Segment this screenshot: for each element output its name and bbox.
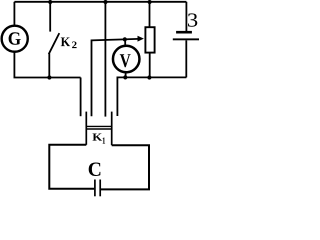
capacitor C left plate	[94, 180, 96, 197]
wire: G upper lead	[13, 2, 15, 26]
wire: rheostat lower lead	[149, 53, 151, 78]
wire: stub 4 outer-right contact from V bottom	[117, 77, 125, 116]
wire: V upper stub	[124, 39, 126, 46]
wire: battery lower lead	[185, 40, 187, 77]
label K1 subscript 1	[103, 138, 106, 144]
galvanometer G body	[2, 26, 28, 52]
wire: top-right corner to battery	[185, 2, 187, 32]
battery short thick plate (negative)	[176, 31, 192, 34]
wire: rheostat upper lead	[149, 2, 151, 27]
junction dot: top bus / K2	[48, 0, 52, 4]
wire: stub 1 outer-left contact	[80, 78, 82, 117]
label K2 subscript 2	[72, 42, 77, 49]
key K1 right post	[111, 112, 113, 146]
label K2 letter K	[61, 38, 70, 47]
wire: top bus	[14, 1, 186, 3]
rheostat R body	[145, 27, 154, 52]
key K1 bridge bar lower	[86, 128, 111, 130]
wire: bottom loop right to capacitor	[101, 145, 149, 189]
wiper arrowhead into rheostat	[138, 36, 144, 42]
switch K2 blade (open)	[49, 33, 60, 54]
wire: bottom loop left to capacitor	[49, 145, 94, 189]
battery long thin plate (positive)	[173, 38, 199, 40]
wire: G lower lead and left bottom wire	[14, 52, 80, 77]
junction dot: wiper line / voltmeter top	[123, 37, 127, 41]
galvanometer G letter	[9, 32, 21, 45]
wire: K2 lower lead	[48, 54, 50, 78]
label C	[89, 163, 101, 177]
wire: right bottom bus	[125, 76, 186, 78]
junction dot: V bottom / right bottom bus	[123, 75, 127, 79]
wire: V lower stub	[125, 72, 127, 78]
wire: stub 2 inner-left contact and wiper line	[92, 39, 139, 116]
voltmeter V letter	[120, 54, 131, 67]
wire: stub 3 inner-right contact from top bus	[104, 2, 106, 117]
voltmeter V body	[113, 46, 140, 73]
label K1 letter K	[93, 134, 103, 141]
wire: K2 upper lead	[49, 2, 51, 32]
junction dot: K2 / left bottom wire	[47, 75, 51, 79]
capacitor C right plate	[99, 180, 101, 197]
junction dot: top bus / rheostat	[148, 0, 152, 4]
key K1 bridge bar upper	[86, 125, 111, 127]
EMF label ε	[188, 13, 197, 26]
junction dot: top bus / stub 3	[103, 0, 107, 4]
key K1 left post	[85, 112, 87, 145]
junction dot: rheostat / right bottom bus	[147, 75, 151, 79]
